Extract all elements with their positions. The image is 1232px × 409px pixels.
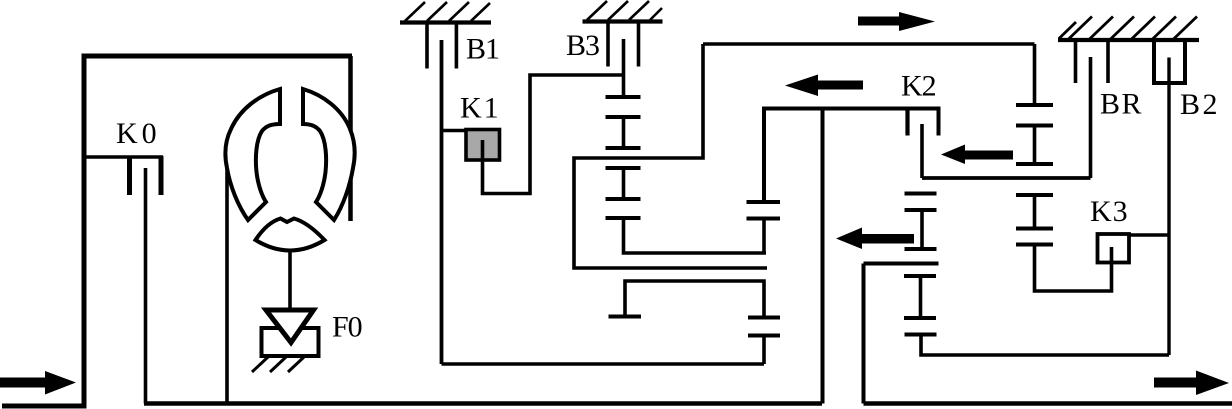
svg-text:BR: BR: [1100, 88, 1143, 121]
svg-text:F0: F0: [332, 311, 362, 344]
svg-text:K2: K2: [901, 70, 936, 103]
svg-text:K1: K1: [460, 92, 501, 125]
svg-text:B2: B2: [1180, 88, 1220, 121]
svg-text:K3: K3: [1090, 195, 1129, 228]
svg-text:K0: K0: [116, 117, 161, 150]
svg-text:B1: B1: [466, 33, 499, 66]
svg-text:B3: B3: [566, 29, 599, 62]
